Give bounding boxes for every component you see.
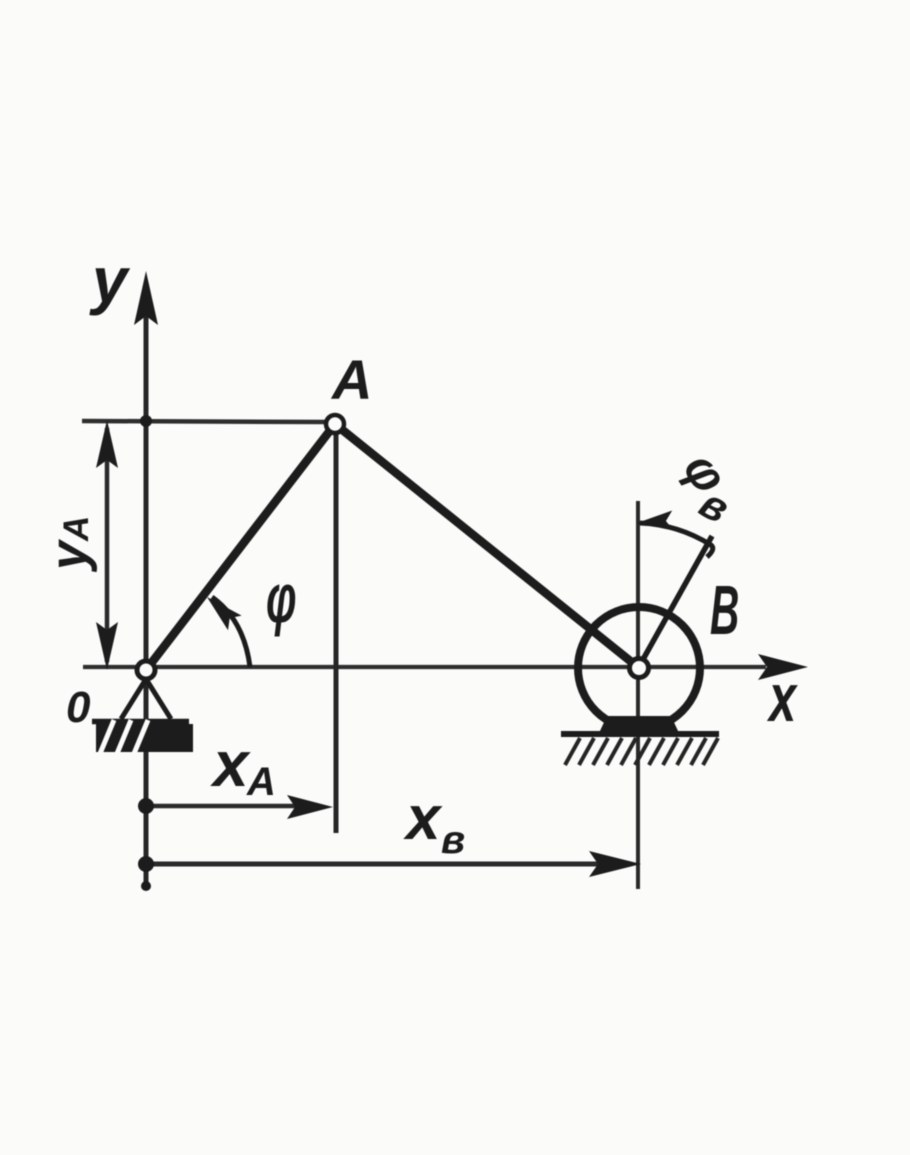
svg-text:A: A bbox=[330, 348, 372, 411]
svg-text:φ: φ bbox=[266, 559, 297, 637]
svg-text:y: y bbox=[89, 244, 131, 316]
svg-text:x: x bbox=[767, 659, 798, 736]
svg-text:в: в bbox=[441, 818, 465, 862]
svg-text:A: A bbox=[57, 516, 96, 542]
svg-text:y: y bbox=[40, 538, 98, 573]
svg-text:B: B bbox=[710, 572, 739, 650]
svg-text:A: A bbox=[246, 760, 276, 804]
svg-text:0: 0 bbox=[66, 683, 91, 732]
svg-text:x: x bbox=[210, 728, 251, 800]
svg-text:x: x bbox=[403, 784, 443, 853]
